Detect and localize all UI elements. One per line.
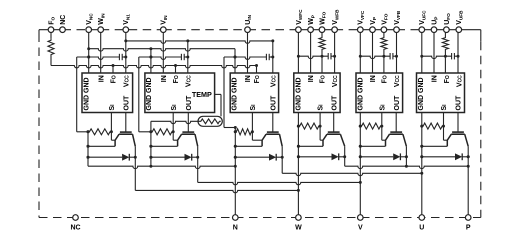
wire rail U5 to V output xyxy=(359,113,362,215)
pin VN1 xyxy=(123,14,131,33)
resistor+capacitor group W high side wires xyxy=(297,33,336,74)
pin W xyxy=(295,215,302,232)
pin FO (fault output) xyxy=(48,17,56,33)
wire collector Q5 xyxy=(405,146,407,157)
wire collector Q2 xyxy=(197,146,199,157)
svg-text:FO: FO xyxy=(382,75,389,83)
wire collector Q1 xyxy=(134,146,136,157)
wire FO bus xyxy=(51,64,258,68)
svg-text:VCC: VCC xyxy=(185,75,192,87)
pin VUFC xyxy=(419,10,427,33)
svg-text:OUT: OUT xyxy=(331,95,338,111)
pin VP xyxy=(370,17,377,33)
diode D3 freewheel xyxy=(234,154,284,161)
wire SI2 sense xyxy=(173,113,177,141)
transistor Q4 IGBT xyxy=(323,132,345,146)
wire collector bus Q1 to W xyxy=(135,157,300,193)
wire rail U3 / N line upper xyxy=(234,128,237,168)
wire rail U4 to W output xyxy=(297,113,300,215)
diode D4 freewheel xyxy=(297,153,346,160)
diode D1 freewheel xyxy=(87,154,137,161)
svg-text:W: W xyxy=(295,225,302,232)
resistor R5g gate/sense xyxy=(359,123,384,129)
wire GND bus to U2 xyxy=(149,49,152,73)
wire emitter Q5 to rail xyxy=(359,145,386,148)
svg-text:OUT: OUT xyxy=(394,95,401,111)
op-amp U3 driver IC xyxy=(230,73,278,113)
pin V xyxy=(358,215,364,232)
svg-text:SI: SI xyxy=(171,104,178,111)
wire SI5 sense xyxy=(382,113,386,141)
svg-text:GND GND: GND GND xyxy=(232,77,239,110)
resistor R-FO on FO pin xyxy=(48,33,54,66)
diode D6 freewheel xyxy=(420,153,469,160)
svg-text:VCC: VCC xyxy=(270,75,277,87)
pin WP xyxy=(308,15,315,32)
wire GND bus to U3 xyxy=(234,49,237,73)
wire node N vertical xyxy=(234,166,236,215)
wire collector bus Q3 to U xyxy=(282,157,423,176)
svg-text:SI: SI xyxy=(441,104,448,111)
svg-text:FO: FO xyxy=(111,75,118,83)
svg-text:NC: NC xyxy=(70,225,80,232)
pin UP xyxy=(431,17,438,33)
wire FO bus to U3 xyxy=(256,66,258,74)
svg-text:GND GND: GND GND xyxy=(84,77,91,110)
pin VWFC xyxy=(296,9,303,33)
pin N xyxy=(233,215,239,232)
svg-text:FO: FO xyxy=(444,75,451,83)
svg-text:SI: SI xyxy=(109,104,116,111)
wire bypass U2 left xyxy=(139,57,151,132)
wire collector Q6 xyxy=(467,146,469,157)
resistor R3g gate/sense xyxy=(234,129,254,135)
svg-text:OUT: OUT xyxy=(456,95,463,111)
wire WIN to IN of U1 xyxy=(100,33,102,74)
svg-text:VCC: VCC xyxy=(456,75,463,87)
wire bypass U1 left xyxy=(77,57,88,132)
svg-text:VCC: VCC xyxy=(394,75,401,87)
module outline right dashed border xyxy=(480,30,482,218)
diode D2 freewheel xyxy=(149,154,199,161)
thermistor TH1 (TEMP sensor) xyxy=(151,94,222,126)
pin U xyxy=(419,215,425,232)
wire rail U6 to U output xyxy=(420,113,423,215)
svg-text:FO: FO xyxy=(254,75,261,83)
svg-text:GND GND: GND GND xyxy=(146,77,153,110)
pin VFO xyxy=(381,13,388,32)
wire top rail solid segments xyxy=(39,29,481,31)
module outline bottom dashed rail xyxy=(39,217,481,219)
svg-text:TEMP: TEMP xyxy=(192,90,212,99)
resistor R6g gate/sense xyxy=(420,123,445,129)
op-amp U1 driver IC xyxy=(82,73,133,113)
wire VN1 bus to VCC of U2 xyxy=(186,41,189,73)
svg-text:VCC: VCC xyxy=(332,75,339,87)
svg-text:VCC: VCC xyxy=(123,75,130,87)
svg-text:NC: NC xyxy=(60,15,67,25)
pin VWFB xyxy=(332,9,339,33)
capacitor C2 xyxy=(139,54,188,60)
capacitor C1 xyxy=(77,54,126,60)
wire emitter Q4 to rail xyxy=(297,145,323,148)
resistor R2g gate/sense xyxy=(149,129,174,135)
svg-text:IN: IN xyxy=(432,75,439,82)
resistor+capacitor group V high side wires xyxy=(359,33,398,74)
svg-text:OUT: OUT xyxy=(123,95,130,111)
wire rail U1 GND/emitter xyxy=(87,132,89,166)
wire SI4 sense xyxy=(320,113,323,141)
wire N emitter bus xyxy=(88,166,235,168)
svg-text:IN: IN xyxy=(98,75,105,82)
wire rail U2 GND/emitter xyxy=(149,121,152,167)
wire collector Q4 xyxy=(344,146,346,157)
wire OUT1 gate xyxy=(125,113,127,133)
svg-text:V: V xyxy=(358,225,363,232)
wire SI1 sense xyxy=(111,113,115,141)
wire emitter Q3 to rail xyxy=(234,145,262,148)
transistor Q1 IGBT xyxy=(115,132,135,146)
wire FO bus to U2 xyxy=(175,66,177,74)
resistor R1g gate/sense xyxy=(87,129,113,135)
pin VNC xyxy=(86,13,94,33)
junction dots rails 4-6 xyxy=(87,125,424,159)
wire UIN to IN of U3 xyxy=(247,33,249,74)
svg-text:SI: SI xyxy=(318,104,325,111)
pin WIN xyxy=(98,13,106,33)
pin NC (top) xyxy=(60,15,67,33)
module outline top dashed rail xyxy=(63,29,422,31)
wire collector bus Q2 to V xyxy=(198,157,362,185)
wire VN1 supply bus xyxy=(126,39,274,43)
transistor Q2 IGBT xyxy=(178,132,198,146)
svg-text:FO: FO xyxy=(320,75,327,83)
wire emitter Q2 to rail xyxy=(149,145,177,148)
pin VIN xyxy=(161,15,169,33)
op-amp U4 driver IC xyxy=(294,73,340,113)
pin UFO xyxy=(444,13,451,33)
pin VUFB xyxy=(456,10,464,33)
pin NC (bottom) xyxy=(70,215,80,232)
svg-text:U: U xyxy=(419,225,424,232)
pin UIN xyxy=(245,14,253,32)
wire FO bus to U1 xyxy=(112,66,114,74)
svg-text:GND GND: GND GND xyxy=(358,77,365,110)
transistor Q5 IGBT xyxy=(386,132,407,146)
svg-text:GND GND: GND GND xyxy=(295,77,302,110)
op-amp U6 driver IC xyxy=(417,73,465,113)
svg-text:SI: SI xyxy=(379,104,386,111)
wire OUT2 gate xyxy=(187,113,189,133)
svg-text:IN: IN xyxy=(308,75,315,82)
svg-text:P: P xyxy=(466,225,471,232)
wire VNC ground bus xyxy=(89,47,235,51)
resistor R4g gate/sense xyxy=(297,123,322,129)
wire SI3 sense xyxy=(252,113,262,141)
wire OUT4 gate xyxy=(333,113,335,133)
wire collector bus Q4/Q5 to P xyxy=(345,157,470,169)
svg-text:IN: IN xyxy=(245,75,252,82)
svg-text:IN: IN xyxy=(370,75,377,82)
svg-text:FO: FO xyxy=(173,75,180,83)
svg-text:SI: SI xyxy=(250,104,257,111)
wire collector Q5 drop xyxy=(405,157,407,166)
module outline left dashed border xyxy=(38,30,40,218)
wire emitter Q1 to rail xyxy=(87,145,116,148)
wire collector Q6 to P xyxy=(467,155,470,214)
wire OUT5 gate xyxy=(395,113,397,133)
svg-text:N: N xyxy=(233,225,238,232)
op-amp U2 driver IC xyxy=(145,73,215,113)
pin P xyxy=(465,215,471,232)
wire VN1 bus to VCC of U3 xyxy=(271,41,274,73)
diode D5 freewheel xyxy=(359,153,408,160)
capacitor C3 xyxy=(224,54,273,60)
wire bypass U3 left xyxy=(224,57,237,129)
wire OUT6 gate xyxy=(457,113,459,133)
transistor Q3 IGBT xyxy=(262,132,282,146)
svg-text:IN: IN xyxy=(161,75,168,82)
wire emitter Q6 to rail xyxy=(420,145,447,148)
pin VVFB xyxy=(394,10,401,32)
wire VIN to IN of U2 xyxy=(162,33,164,74)
pin VVFC xyxy=(358,10,366,32)
pin WFO xyxy=(319,11,326,32)
wire SI6 sense xyxy=(444,113,448,141)
wire VN1 to VCC of U1 xyxy=(124,33,127,74)
transistor Q6 IGBT xyxy=(447,132,468,146)
resistor+capacitor group U high side wires xyxy=(420,33,459,74)
wire OUT3 gate xyxy=(272,113,274,133)
wire collector Q3 xyxy=(281,146,283,157)
wire VNC to GND of U1 xyxy=(87,33,90,74)
svg-text:OUT: OUT xyxy=(270,95,277,111)
op-amp U5 driver IC xyxy=(356,73,403,113)
svg-text:GND GND: GND GND xyxy=(418,77,425,110)
